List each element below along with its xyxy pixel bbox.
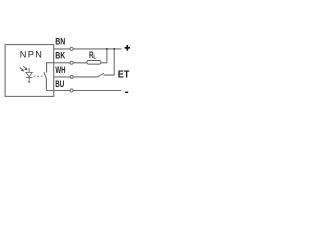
junction dot ET riser	[113, 48, 115, 50]
connector circle BN	[70, 47, 73, 50]
minus terminal	[125, 91, 128, 93]
switch right lead	[104, 49, 115, 75]
junction dot BK riser	[106, 48, 108, 50]
switch ET on WH line	[97, 73, 104, 77]
wire BK	[54, 62, 87, 64]
sensor body box	[5, 45, 54, 97]
wire from RL to riser	[101, 62, 108, 64]
connector circle BK	[70, 61, 73, 64]
svg-text:BN: BN	[55, 37, 65, 48]
plus terminal	[125, 45, 131, 51]
connector circle WH	[70, 75, 73, 78]
light arrows into photodiode	[20, 66, 27, 71]
dashed control line from photodiode to output switch	[34, 75, 43, 77]
wire BU	[46, 90, 121, 92]
svg-text:WH: WH	[55, 65, 65, 76]
svg-text:NPN: NPN	[20, 49, 42, 59]
svg-text:BU: BU	[55, 79, 64, 90]
photodiode D1	[26, 68, 33, 82]
riser BK to + rail	[106, 49, 108, 63]
resistor RL body	[87, 61, 101, 65]
svg-text:BK: BK	[55, 51, 65, 62]
svg-text:ET: ET	[118, 70, 130, 81]
connector circle BU	[70, 89, 73, 92]
wire WH	[54, 76, 97, 78]
wire BN	[54, 48, 122, 50]
internal output switch (transistor)	[44, 63, 54, 91]
svg-text:L: L	[94, 55, 97, 61]
